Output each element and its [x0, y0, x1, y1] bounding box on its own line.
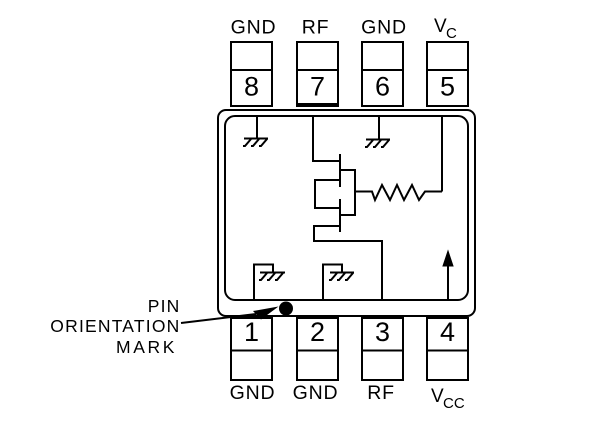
svg-text:4: 4 — [440, 317, 455, 347]
svg-text:2: 2 — [310, 317, 325, 347]
svg-text:GND: GND — [231, 17, 277, 39]
svg-text:PIN: PIN — [148, 296, 181, 316]
pin 4 label Vcc — [431, 386, 465, 412]
svg-text:8: 8 — [244, 72, 259, 102]
svg-text:5: 5 — [440, 72, 455, 102]
pin 6 box — [362, 42, 403, 106]
pin 7 box — [297, 42, 338, 106]
pin 8 box — [231, 42, 272, 106]
ground G2 (pin 6, top middle) — [365, 116, 390, 147]
pin 2 box — [297, 318, 338, 380]
pin 5 box — [427, 42, 468, 106]
wire transistor to pin 3 — [314, 226, 382, 300]
label PIN ORIENTATION MARK — [50, 296, 180, 357]
svg-text:C: C — [446, 25, 457, 42]
transistor Q1 — [315, 154, 355, 232]
orientation leader line — [181, 314, 256, 323]
svg-text:7: 7 — [310, 72, 325, 102]
current arrow and wire pin 4 — [443, 251, 453, 300]
package body U1 — [218, 110, 475, 316]
ground G4 (pin 2, bottom middle) — [323, 265, 354, 301]
svg-text:CC: CC — [443, 395, 465, 412]
svg-text:3: 3 — [375, 317, 390, 347]
ground G3 (pin 1, bottom left) — [254, 265, 285, 301]
ground G1 (pin 8, top left) — [243, 116, 268, 146]
pin 5 label Vc — [434, 16, 457, 42]
orientation arrowhead — [253, 307, 279, 320]
svg-text:ORIENTATION: ORIENTATION — [50, 316, 180, 336]
resistor R1 — [355, 185, 442, 200]
svg-text:RF: RF — [302, 17, 330, 39]
svg-text:6: 6 — [375, 72, 390, 102]
svg-text:GND: GND — [361, 17, 407, 39]
pin 1 box — [231, 318, 272, 380]
wire resistor to pin 5 — [441, 116, 443, 192]
pin 3 box — [362, 318, 403, 380]
svg-text:MARK: MARK — [116, 337, 177, 357]
svg-text:GND: GND — [293, 382, 339, 404]
svg-text:1: 1 — [244, 317, 259, 347]
svg-text:RF: RF — [367, 382, 395, 404]
wire pin 7 to transistor gate — [313, 116, 340, 161]
pin 4 box — [427, 318, 468, 380]
pin 1 orientation dot — [279, 302, 293, 316]
svg-text:GND: GND — [230, 382, 276, 404]
